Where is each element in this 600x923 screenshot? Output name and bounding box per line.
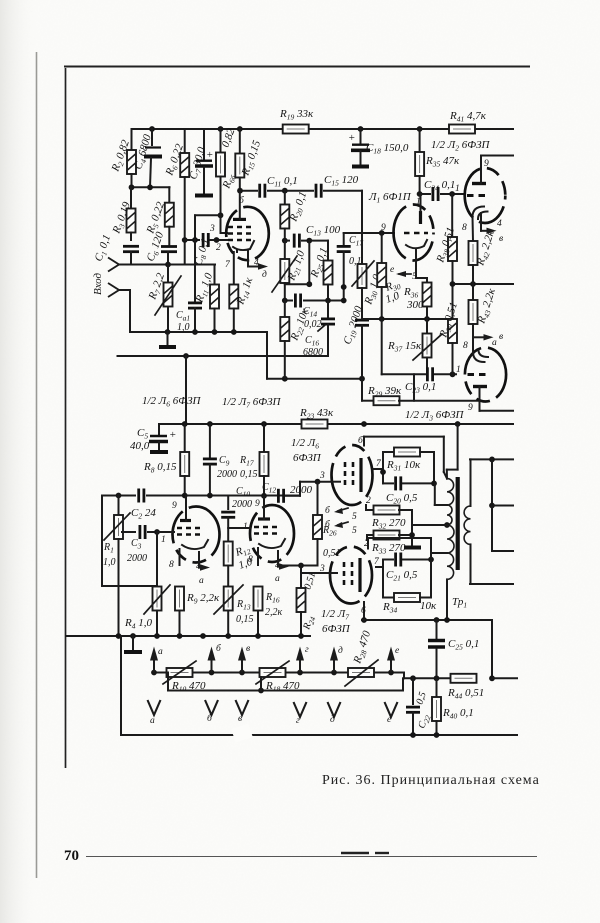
svg-text:0,5: 0,5 [414, 691, 428, 706]
variable resistor R28 470 [345, 629, 378, 686]
tube V1 input pentode envelope [226, 207, 269, 260]
svg-text:R4 1,0: R4 1,0 [124, 617, 152, 631]
svg-text:г: г [296, 716, 300, 726]
wire: V4 anode tap arrow [473, 332, 503, 348]
node: R6b bottom tie [195, 212, 227, 240]
svg-text:+: + [169, 429, 176, 441]
tube V7 push-pull L6 envelope [332, 445, 373, 505]
resistor R20 0,1 [280, 190, 310, 241]
plug arrow v [238, 644, 250, 673]
svg-text:1,0: 1,0 [103, 557, 116, 568]
svg-text:9: 9 [484, 159, 489, 169]
resistor R16 2,2k [254, 587, 283, 637]
wire: grid bus y495 [102, 493, 300, 499]
wire: main B+ top rail [132, 128, 284, 130]
resistor R44 0,51 [447, 674, 484, 701]
capacitor C9 2000 [203, 424, 237, 496]
svg-text:C21 0,5: C21 0,5 [386, 569, 418, 583]
svg-text:д: д [330, 714, 335, 725]
socket fork a [148, 700, 161, 726]
wire: row y319 [362, 316, 453, 322]
svg-text:1: 1 [455, 184, 460, 194]
tube V6 half L7 envelope [250, 505, 294, 562]
svg-text:1: 1 [416, 197, 421, 207]
svg-text:R31 10к: R31 10к [386, 459, 421, 473]
svg-text:R16: R16 [265, 592, 280, 605]
wire: B+ to transformer [447, 424, 458, 479]
svg-text:R24: R24 [301, 614, 317, 632]
socket fork b [205, 700, 218, 724]
svg-text:40,0: 40,0 [130, 440, 150, 452]
variable resistor R30 1,0 [352, 233, 385, 318]
svg-text:Тр1: Тр1 [452, 596, 467, 610]
wire: grid row y233 to V2 [344, 191, 394, 236]
svg-text:+: + [348, 132, 355, 144]
svg-text:R8 0,15: R8 0,15 [143, 461, 177, 475]
capacitor C2 24 [131, 488, 156, 521]
svg-text:C9: C9 [219, 455, 230, 468]
wire: row y565 [280, 563, 318, 569]
top page rule [64, 66, 530, 68]
resistor R30b (grid stopper) [377, 233, 402, 319]
svg-text:1/2 Л7: 1/2 Л7 [321, 608, 349, 622]
resistor R24 0,51 [297, 566, 319, 637]
plug arrow b [208, 643, 223, 673]
capacitor C11 0,1 [258, 175, 298, 198]
tube V2 pin labels [381, 197, 421, 282]
wire: V2 cathode tap with arrow [390, 265, 411, 277]
resistor R14 1k [229, 252, 257, 332]
page edge shadow line [36, 52, 38, 878]
resistor R6 0,22 [163, 129, 189, 265]
scan break artifact [231, 724, 252, 743]
variable resistor R13 0,15 [214, 585, 254, 636]
wire: primary tap3 to C21 loop [431, 553, 447, 560]
socket fork v [236, 700, 249, 724]
svg-text:е: е [390, 265, 394, 275]
ground [159, 332, 176, 347]
resistor R25 0,1 [308, 241, 332, 301]
svg-text:R28 470: R28 470 [351, 629, 375, 666]
tube V8 pin labels [361, 539, 380, 616]
capacitor C21 0,5 [383, 553, 434, 598]
plug arrow e [387, 646, 399, 673]
svg-text:R34: R34 [382, 601, 397, 615]
wire: ground bus y636 [66, 633, 310, 639]
bias arrows b2 [325, 519, 357, 536]
svg-text:R32 270: R32 270 [371, 517, 406, 531]
svg-text:а: а [492, 338, 497, 348]
capacitor C14 0,02 [293, 293, 322, 330]
resistor R33 270 [367, 531, 412, 556]
wire: V7 anode to primary [364, 437, 447, 479]
wire: link row y690 [168, 673, 403, 694]
svg-text:R29 39к: R29 39к [367, 385, 402, 399]
tube V3 pin labels [455, 184, 502, 233]
wire: primary tap2 to bias divider [412, 524, 447, 526]
electrolytic C5 40,0 [130, 424, 176, 452]
node: wire under R2/C4 [129, 184, 170, 190]
svg-text:R36: R36 [403, 286, 418, 300]
wire: input jack2 down to bus [119, 290, 130, 332]
svg-text:в: в [499, 332, 503, 342]
svg-text:R35 47к: R35 47к [425, 155, 460, 169]
bias arrows b [325, 505, 357, 522]
capacitor Ca1 1,0 [176, 240, 202, 333]
wire: V8 anode link [368, 538, 431, 560]
svg-text:7: 7 [225, 260, 231, 270]
wire: feed drop to lower rail [185, 356, 187, 424]
svg-text:3: 3 [209, 224, 215, 234]
variable resistor R37 15k [387, 319, 442, 374]
svg-text:R37 15к: R37 15к [387, 340, 422, 354]
svg-text:2000: 2000 [217, 469, 237, 480]
wire: secondary stub [492, 506, 513, 552]
resistor R3 0,19 [110, 187, 135, 240]
capacitor C12 2000 [262, 479, 332, 503]
resistor R9 2,2k [175, 587, 220, 637]
wire: input to grid [119, 264, 215, 266]
tube V4 internals [468, 350, 490, 411]
svg-text:1/2 Л7 6ФЗП: 1/2 Л7 6ФЗП [222, 396, 282, 410]
svg-text:10к: 10к [420, 600, 437, 612]
wire: anode row y190 [237, 188, 362, 194]
wire: row y300 [282, 298, 344, 304]
svg-text:4: 4 [497, 219, 502, 229]
tube V3 L2 envelope [465, 168, 506, 223]
svg-text:б: б [216, 643, 222, 654]
capacitor C10 2000 [221, 486, 252, 542]
plug arrow d [330, 645, 343, 673]
svg-text:в: в [499, 234, 503, 244]
svg-text:б: б [239, 195, 245, 206]
variable resistor R4 1,0 [124, 532, 170, 636]
resistor R39 0,51 [437, 284, 461, 374]
wire: V3 cathode tap arrow [481, 213, 503, 244]
wire: R1 loop [102, 496, 157, 587]
tube V8 internals [330, 538, 383, 620]
wire: left drop [120, 636, 122, 735]
wire: upper ground bus y332 [130, 329, 267, 335]
capacitor C24 0,1 [417, 179, 464, 201]
capacitor C3 2000 [122, 525, 174, 564]
tube V4 L3 envelope [465, 348, 506, 402]
svg-text:8: 8 [462, 223, 467, 233]
svg-text:е: е [387, 715, 391, 725]
svg-text:5: 5 [352, 512, 357, 522]
wire: secondary bottom out [470, 544, 513, 584]
tube V1 pin labels [209, 195, 267, 280]
socket fork g [294, 702, 307, 726]
wire: secondary top out [470, 457, 513, 507]
resistor R35 47k [415, 126, 460, 194]
resistor R38 0,51 [434, 194, 458, 284]
svg-text:R23 43к: R23 43к [299, 407, 334, 421]
svg-text:3: 3 [319, 564, 325, 574]
resistor R8 0,15 [143, 424, 189, 496]
tube V4 pin labels [456, 341, 473, 413]
resistor R43 2,2k [469, 284, 500, 352]
variable resistor R10 470 [163, 661, 206, 694]
wire: row y284 to edge [450, 281, 513, 287]
svg-text:R17: R17 [239, 455, 254, 468]
svg-text:Cа1: Cа1 [176, 310, 190, 323]
svg-text:R40 0,1: R40 0,1 [442, 707, 474, 721]
wire: lower B+ rail y424 [159, 421, 513, 427]
resistor R12 1,0 [224, 542, 255, 588]
wire: feed row y356 [118, 353, 329, 359]
wire: V6 grid [228, 527, 250, 529]
svg-text:в: в [238, 714, 242, 724]
resistor R2 0,82 [109, 129, 136, 187]
svg-text:R19 33к: R19 33к [279, 108, 314, 122]
tube V7 internals [332, 437, 383, 492]
svg-text:C16: C16 [305, 335, 319, 348]
svg-text:C18 150,0: C18 150,0 [366, 142, 409, 156]
svg-text:C20 0,5: C20 0,5 [386, 492, 418, 506]
wire: secondary tap out [489, 459, 513, 508]
input jack 1 [108, 258, 119, 272]
svg-text:а: а [158, 647, 163, 657]
svg-text:а: а [199, 576, 204, 586]
resistor R29 39k [362, 374, 513, 410]
svg-text:300: 300 [406, 299, 424, 311]
capacitor C16 6800 [303, 301, 335, 359]
capacitor C22 0,5 [406, 678, 433, 735]
tube V6 internals [254, 496, 285, 565]
svg-text:C13 100: C13 100 [306, 224, 341, 238]
svg-text:1/2 Л6: 1/2 Л6 [291, 437, 319, 451]
tube V5 internals [177, 496, 208, 566]
svg-text:1: 1 [161, 535, 166, 545]
resistor R19 33k [279, 108, 314, 134]
capacitor C19 2000 [341, 304, 369, 379]
capacitor C25 0,1 [428, 620, 479, 678]
svg-text:6ФЗП: 6ФЗП [293, 452, 322, 464]
svg-text:5: 5 [352, 526, 357, 536]
wire: C13 branch down [285, 241, 312, 288]
svg-text:R41 4,7к: R41 4,7к [449, 110, 487, 124]
svg-text:C3: C3 [131, 538, 142, 551]
svg-text:R20 0,1: R20 0,1 [287, 190, 311, 224]
resistor R32 270 [366, 505, 412, 531]
svg-text:7: 7 [376, 459, 382, 469]
input jack 2 [108, 283, 119, 297]
resistor R17 0,15 [239, 424, 269, 496]
resistor R41 4,7k [449, 110, 487, 134]
svg-text:0,15: 0,15 [236, 614, 254, 625]
svg-text:R44 0,51: R44 0,51 [447, 687, 484, 701]
wire: V5 grid [157, 531, 174, 533]
plug arrow g [296, 645, 309, 673]
capacitor C17 0,1 [337, 233, 364, 303]
svg-text:3: 3 [319, 471, 325, 481]
capacitor C15 120 [314, 174, 359, 198]
resistor R11 1,0 [193, 265, 219, 333]
svg-text:C25 0,1: C25 0,1 [448, 638, 479, 652]
capacitor C20 0,5 [383, 476, 437, 505]
resistor R42 2,2k [469, 217, 499, 284]
capacitor C4 6800 [132, 126, 162, 187]
socket fork d [328, 702, 341, 725]
svg-text:1/2 Л6 6ФЗП: 1/2 Л6 6ФЗП [142, 395, 202, 409]
variable resistor R7 2,2 [146, 265, 181, 333]
wire: row y240 [282, 234, 328, 248]
wire: V5 cathode tap arrow [199, 552, 210, 571]
tube V7 pin labels [319, 435, 382, 506]
wire: bias row y672 [151, 670, 450, 682]
variable resistor R1 1,0 [103, 496, 130, 637]
svg-text:а: а [275, 574, 280, 584]
transformer Tr1 primary [444, 479, 454, 620]
svg-text:6ФЗП: 6ФЗП [322, 623, 351, 635]
plug arrow a [150, 647, 163, 673]
tube V3 internals [467, 156, 489, 220]
svg-text:2000: 2000 [290, 484, 313, 496]
svg-text:6: 6 [361, 606, 366, 616]
wire: R32/R33 tie + ground [404, 510, 421, 548]
resistor R23 43k [299, 407, 334, 429]
resistor R40 0,1 [432, 678, 474, 735]
svg-text:1/2 Л3 6ФЗП: 1/2 Л3 6ФЗП [405, 409, 465, 423]
capacitor C23 0,1 [382, 319, 456, 395]
svg-text:C15 120: C15 120 [324, 174, 359, 188]
svg-text:Вход: Вход [92, 272, 104, 295]
svg-text:7: 7 [374, 557, 380, 567]
capacitor C8 0,1 [182, 233, 227, 267]
resistor R15 0,15 [235, 126, 264, 191]
svg-text:C10: C10 [236, 486, 250, 499]
svg-text:в: в [246, 644, 250, 654]
svg-text:1/2 Л2 6ФЗП: 1/2 Л2 6ФЗП [431, 139, 491, 153]
resistor R36 300 [403, 262, 432, 319]
resistor R31 10k [380, 448, 434, 484]
resistor R34 10k [382, 560, 437, 615]
svg-text:C22: C22 [416, 713, 432, 731]
wire: bottom rail y735 [121, 732, 517, 738]
wire: V8 grid row [301, 564, 330, 574]
tube V5 pin labels [161, 501, 204, 586]
resistor R22 10k [280, 301, 313, 379]
svg-text:8: 8 [169, 560, 174, 570]
svg-text:C23 0,1: C23 0,1 [405, 381, 436, 395]
svg-text:б: б [325, 505, 331, 516]
wire: C20 junction to primary tap1 [435, 483, 447, 505]
svg-text:д: д [338, 645, 343, 656]
resistor R5 0,22 [144, 187, 174, 246]
svg-text:8: 8 [463, 341, 468, 351]
svg-text:R1: R1 [103, 542, 114, 555]
svg-text:R9 2,2к: R9 2,2к [186, 592, 220, 606]
left page rule [65, 68, 67, 768]
node [165, 262, 171, 268]
capacitor C1 0,1 [93, 233, 139, 265]
svg-text:C2 24: C2 24 [131, 507, 156, 521]
wire: bus drop to lower feed [267, 332, 365, 382]
svg-text:C11 0,1: C11 0,1 [267, 175, 298, 189]
svg-text:г: г [305, 645, 309, 655]
svg-text:2000: 2000 [232, 499, 252, 510]
svg-text:9: 9 [468, 403, 473, 413]
tube V2 internals [404, 194, 428, 262]
svg-text:2,2к: 2,2к [265, 607, 283, 618]
svg-text:C24 0,1: C24 0,1 [424, 179, 455, 193]
tube V1 internals [228, 191, 254, 252]
svg-text:70: 70 [64, 848, 79, 864]
transformer Tr1 secondary [464, 506, 470, 544]
svg-text:C5: C5 [137, 427, 148, 441]
tube V2 triode L1 envelope [394, 205, 434, 261]
svg-text:9: 9 [172, 501, 177, 511]
tube V8 push-pull L7 envelope [330, 547, 372, 604]
svg-text:R13: R13 [236, 599, 251, 612]
wire: V1 cathode tap with arrow [248, 250, 268, 270]
wire: cathode rail y620 [361, 617, 492, 623]
svg-text:9: 9 [255, 499, 260, 509]
svg-text:е: е [395, 646, 399, 656]
wire: V3 pin9 to edge [481, 156, 513, 170]
resistor R6b 0,82 [216, 126, 238, 215]
variable resistor R18 470 [256, 661, 300, 694]
tube V6 pin labels [243, 499, 280, 584]
tube V5 half L6 envelope [173, 507, 220, 563]
variable resistor R21 1,0 [272, 241, 309, 301]
svg-text:2000: 2000 [127, 553, 147, 564]
capacitor C6 120 [145, 230, 177, 265]
transformer Tr1 core [456, 477, 460, 570]
electrolytic C18 150,0 [348, 126, 409, 166]
svg-text:0,15: 0,15 [240, 469, 258, 480]
svg-text:а: а [150, 716, 155, 726]
svg-text:R43 2,2к: R43 2,2к [475, 286, 499, 326]
bottom rule [86, 853, 537, 857]
ground [124, 636, 142, 652]
svg-text:C12: C12 [262, 482, 276, 495]
wire: right drop [489, 620, 517, 681]
svg-text:д: д [262, 269, 267, 280]
svg-text:Л1 6Ф1П: Л1 6Ф1П [368, 191, 412, 205]
resistor R26 0,51 [313, 482, 341, 566]
wire: V6 cathode tap arrow [278, 551, 289, 570]
svg-text:9: 9 [381, 223, 386, 233]
svg-text:2: 2 [216, 243, 221, 253]
electrolytic C7 30,0 [187, 129, 213, 196]
svg-text:C7 30,0: C7 30,0 [187, 145, 209, 181]
svg-text:Рис. 36. Принципиальная схема: Рис. 36. Принципиальная схема [322, 773, 540, 788]
socket fork e [385, 702, 398, 725]
svg-text:1: 1 [456, 365, 461, 375]
